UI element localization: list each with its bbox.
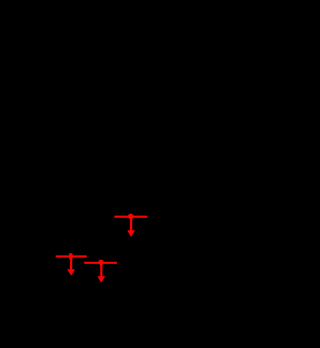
node A (junction dot) <box>128 214 134 220</box>
node C (junction dot) <box>98 260 103 265</box>
wire (left red segment) <box>56 255 87 257</box>
current arrow I3 <box>97 263 105 283</box>
current arrow I1 <box>127 217 135 237</box>
current arrow I2 <box>67 258 75 276</box>
wire (middle red segment) <box>84 262 117 264</box>
node B (cross junction marker) <box>69 253 72 259</box>
wire (top red segment) <box>114 216 147 218</box>
